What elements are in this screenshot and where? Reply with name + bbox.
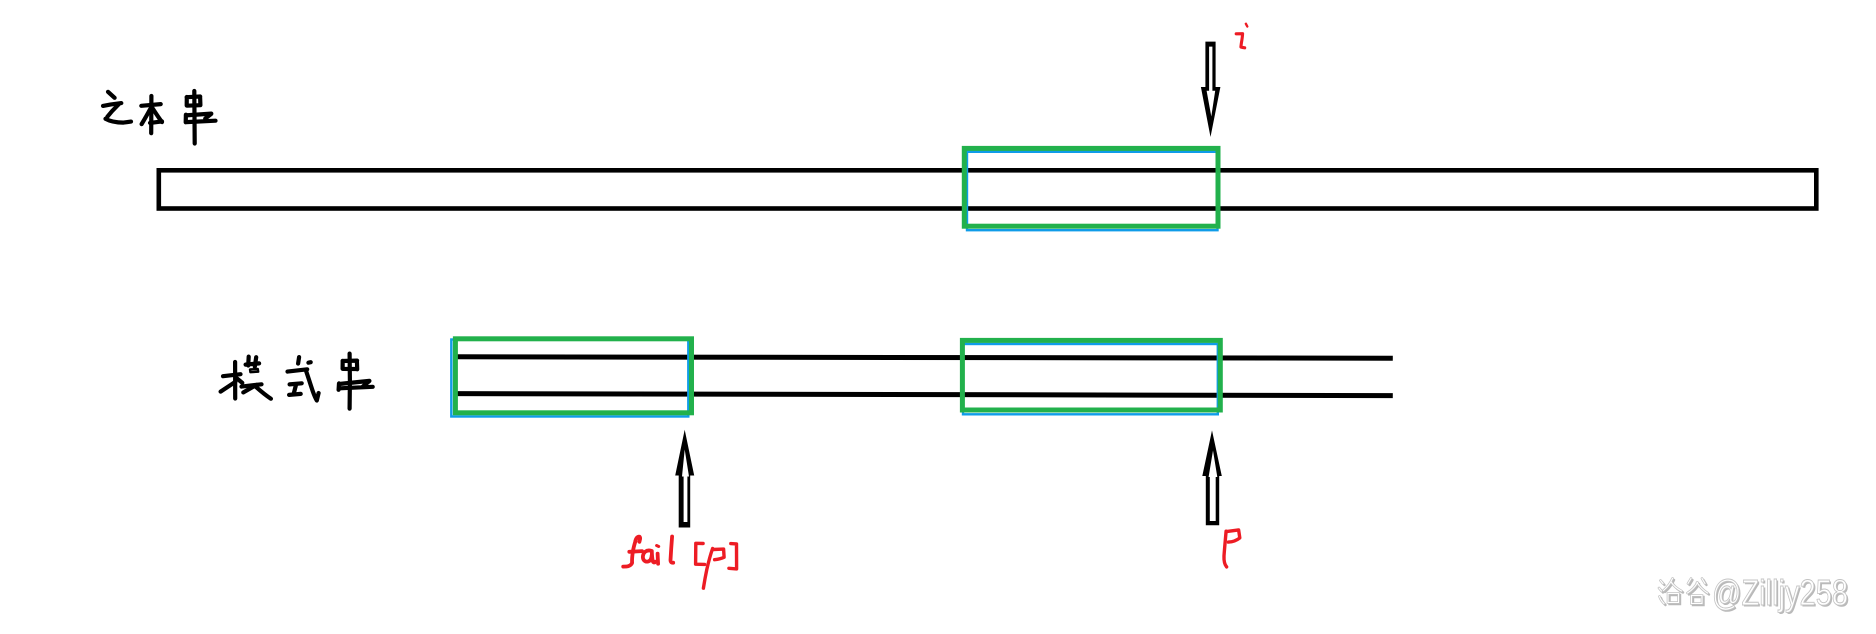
watermark shadow layer bbox=[1661, 574, 1850, 615]
pattern-string bottom line bbox=[455, 394, 1393, 396]
char 串 (top) bbox=[192, 91, 197, 144]
watermark outline layer bbox=[1659, 579, 1708, 604]
text-string bar (long rectangle) bbox=[159, 170, 1817, 208]
p bbox=[713, 549, 724, 560]
label i (red, handwritten) bbox=[1236, 24, 1247, 48]
char 串 (pattern) bbox=[348, 354, 352, 409]
highlight box blue B2 (pattern left) bbox=[451, 340, 688, 417]
highlight box green G3 (pattern right) bbox=[962, 340, 1220, 410]
pattern-string top line bbox=[455, 357, 1393, 358]
pointer arrow fail[p] (up arrow, outlined) bbox=[675, 430, 694, 528]
[ bbox=[696, 543, 705, 564]
] bbox=[729, 544, 737, 569]
highlight box green G1 (top bar) bbox=[964, 148, 1218, 226]
i bbox=[656, 554, 660, 564]
label 模式串 (handwritten, middle-left) bbox=[221, 354, 373, 409]
watermark white core layer bbox=[1659, 579, 1708, 604]
char 文 bbox=[108, 92, 115, 98]
a bbox=[643, 550, 652, 561]
char 式 bbox=[298, 357, 299, 364]
highlight box blue B1 (under green, top bar) bbox=[967, 152, 1218, 230]
label fail [p] (red, handwritten) bbox=[623, 537, 736, 589]
highlight box green G2 (pattern left) bbox=[455, 339, 691, 413]
char 本 bbox=[141, 104, 160, 106]
f bbox=[635, 537, 640, 542]
highlight box blue B3 (pattern right) bbox=[963, 344, 1218, 414]
label 文本串 (handwritten, top-left) bbox=[103, 91, 216, 144]
l bbox=[671, 537, 674, 563]
pointer arrow i (down arrow, outlined) bbox=[1201, 42, 1221, 137]
svg-text:@Zilljy258: @Zilljy258 bbox=[1712, 572, 1848, 613]
watermark 洛谷@Zilljy258 (embossed gray) bbox=[1659, 572, 1850, 615]
pointer arrow p (up arrow, outlined) bbox=[1202, 430, 1222, 525]
label p (red, handwritten) bbox=[1224, 530, 1240, 567]
char 模 bbox=[233, 362, 237, 399]
